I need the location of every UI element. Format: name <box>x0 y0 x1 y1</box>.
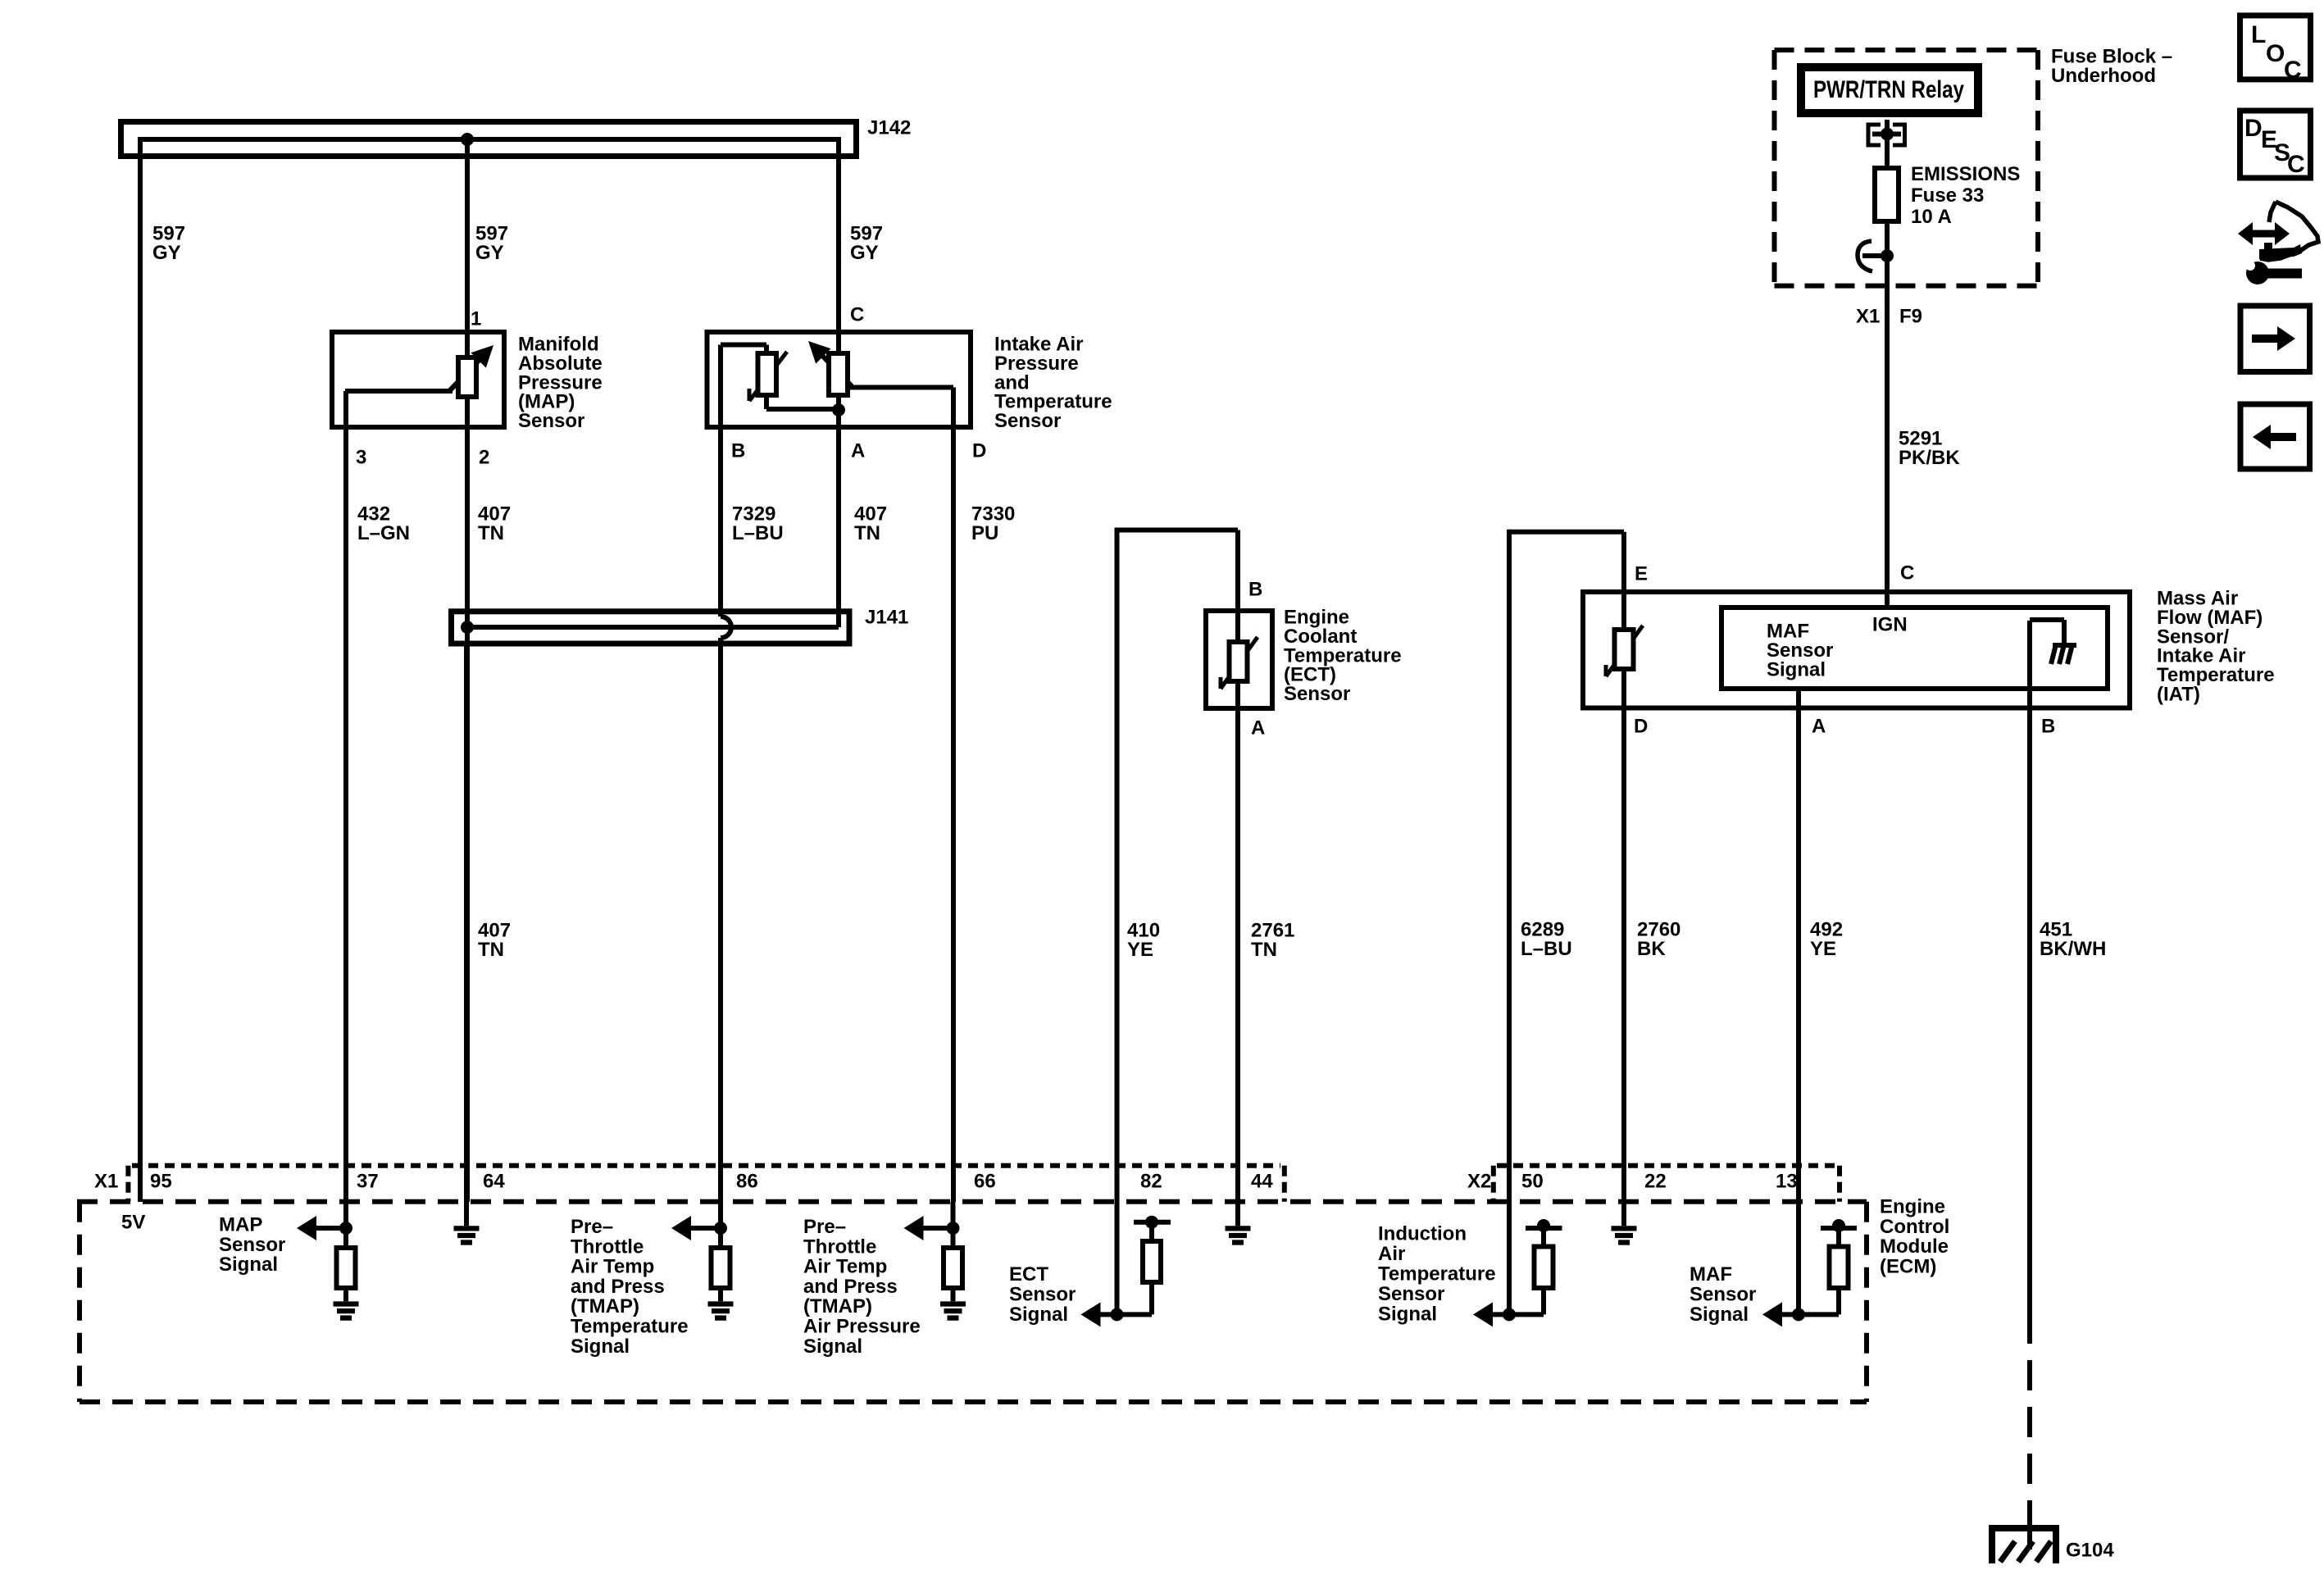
svg-text:82: 82 <box>1140 1171 1162 1193</box>
svg-text:Sensor: Sensor <box>219 1234 285 1256</box>
svg-text:Throttle: Throttle <box>803 1235 876 1258</box>
svg-text:Signal: Signal <box>219 1254 278 1276</box>
svg-text:GY: GY <box>475 242 504 264</box>
svg-text:J142: J142 <box>867 117 911 139</box>
svg-text:X1: X1 <box>1856 306 1880 328</box>
svg-text:Sensor: Sensor <box>1284 683 1350 705</box>
svg-text:ECT: ECT <box>1009 1263 1048 1285</box>
svg-text:13: 13 <box>1776 1171 1798 1193</box>
svg-text:A: A <box>1251 717 1265 739</box>
svg-text:44: 44 <box>1251 1171 1273 1193</box>
svg-text:95: 95 <box>150 1171 172 1193</box>
svg-text:Pre–: Pre– <box>571 1216 613 1238</box>
svg-text:37: 37 <box>357 1171 379 1193</box>
svg-text:D: D <box>1634 716 1648 738</box>
svg-text:Sensor: Sensor <box>1378 1283 1444 1305</box>
svg-text:MAF: MAF <box>1690 1263 1732 1285</box>
svg-text:Signal: Signal <box>1009 1304 1068 1326</box>
svg-text:86: 86 <box>736 1171 758 1193</box>
svg-text:TN: TN <box>478 522 504 544</box>
svg-text:B: B <box>1248 579 1262 601</box>
svg-text:Sensor: Sensor <box>1009 1284 1076 1306</box>
svg-text:EMISSIONS: EMISSIONS <box>1911 163 2020 185</box>
svg-text:PK/BK: PK/BK <box>1899 447 1960 469</box>
svg-text:B: B <box>2041 716 2055 738</box>
svg-text:G104: G104 <box>2066 1540 2114 1562</box>
svg-text:Signal: Signal <box>571 1336 630 1358</box>
svg-text:L–BU: L–BU <box>1521 938 1572 960</box>
svg-text:Underhood: Underhood <box>2051 65 2156 87</box>
svg-text:Signal: Signal <box>1690 1304 1749 1326</box>
svg-text:Sensor: Sensor <box>518 410 584 432</box>
svg-text:Air: Air <box>1378 1243 1405 1265</box>
svg-text:O: O <box>2266 40 2285 67</box>
svg-text:C: C <box>850 304 864 326</box>
svg-text:YE: YE <box>1810 938 1836 960</box>
svg-text:Fuse 33: Fuse 33 <box>1911 184 1984 207</box>
svg-text:50: 50 <box>1521 1171 1544 1193</box>
svg-text:IGN: IGN <box>1872 614 1908 636</box>
svg-text:B: B <box>731 440 745 462</box>
svg-text:3: 3 <box>356 447 366 469</box>
svg-text:2: 2 <box>479 447 489 469</box>
svg-text:1: 1 <box>471 308 481 330</box>
svg-text:64: 64 <box>483 1171 505 1193</box>
svg-text:X1: X1 <box>94 1171 118 1193</box>
svg-text:Induction: Induction <box>1378 1223 1467 1245</box>
svg-text:Air Temp: Air Temp <box>571 1256 654 1278</box>
svg-text:A: A <box>851 440 865 462</box>
svg-text:5V: 5V <box>121 1212 145 1234</box>
svg-text:Signal: Signal <box>1767 658 1826 680</box>
svg-text:X2: X2 <box>1467 1171 1491 1193</box>
svg-text:L–BU: L–BU <box>732 522 784 544</box>
svg-text:Temperature: Temperature <box>571 1316 689 1338</box>
svg-text:C: C <box>2287 151 2305 178</box>
svg-text:PU: PU <box>971 522 998 544</box>
svg-text:(IAT): (IAT) <box>2157 684 2200 706</box>
svg-text:F9: F9 <box>1899 306 1922 328</box>
svg-text:E: E <box>1635 563 1648 585</box>
svg-text:BK: BK <box>1637 938 1666 960</box>
svg-text:C: C <box>2284 57 2302 84</box>
svg-text:Sensor: Sensor <box>994 410 1061 432</box>
svg-text:Throttle: Throttle <box>571 1235 644 1258</box>
svg-text:PWR/TRN Relay: PWR/TRN Relay <box>1813 76 1964 103</box>
svg-text:D: D <box>972 440 986 462</box>
svg-text:Pre–: Pre– <box>803 1216 846 1238</box>
svg-text:L–GN: L–GN <box>357 522 410 544</box>
svg-text:Sensor: Sensor <box>1690 1284 1756 1306</box>
svg-text:MAP: MAP <box>219 1214 262 1236</box>
svg-text:66: 66 <box>974 1171 996 1193</box>
svg-text:Signal: Signal <box>1378 1304 1437 1326</box>
svg-text:and Press: and Press <box>571 1276 665 1298</box>
svg-text:(TMAP): (TMAP) <box>803 1295 872 1317</box>
svg-text:22: 22 <box>1644 1171 1667 1193</box>
svg-text:(ECM): (ECM) <box>1880 1255 1936 1277</box>
svg-text:and Press: and Press <box>803 1276 898 1298</box>
svg-text:TN: TN <box>854 522 880 544</box>
svg-text:Temperature: Temperature <box>1378 1263 1496 1285</box>
svg-text:Signal: Signal <box>803 1336 862 1358</box>
svg-text:(TMAP): (TMAP) <box>571 1295 639 1317</box>
svg-text:Air Pressure: Air Pressure <box>803 1316 921 1338</box>
svg-text:Air Temp: Air Temp <box>803 1256 887 1278</box>
svg-text:Module: Module <box>1880 1235 1949 1258</box>
svg-text:A: A <box>1812 716 1826 738</box>
svg-text:GY: GY <box>152 242 181 264</box>
svg-text:GY: GY <box>850 242 879 264</box>
svg-text:Engine: Engine <box>1880 1196 1945 1218</box>
svg-text:D: D <box>2244 115 2263 142</box>
svg-text:YE: YE <box>1127 939 1153 961</box>
svg-text:Control: Control <box>1880 1216 1949 1238</box>
svg-text:L: L <box>2251 21 2266 48</box>
svg-text:C: C <box>1900 562 1914 585</box>
svg-text:J141: J141 <box>865 607 908 629</box>
svg-text:TN: TN <box>1251 939 1277 961</box>
svg-text:BK/WH: BK/WH <box>2040 938 2106 960</box>
svg-text:TN: TN <box>478 939 504 961</box>
svg-text:10 A: 10 A <box>1911 206 1952 228</box>
